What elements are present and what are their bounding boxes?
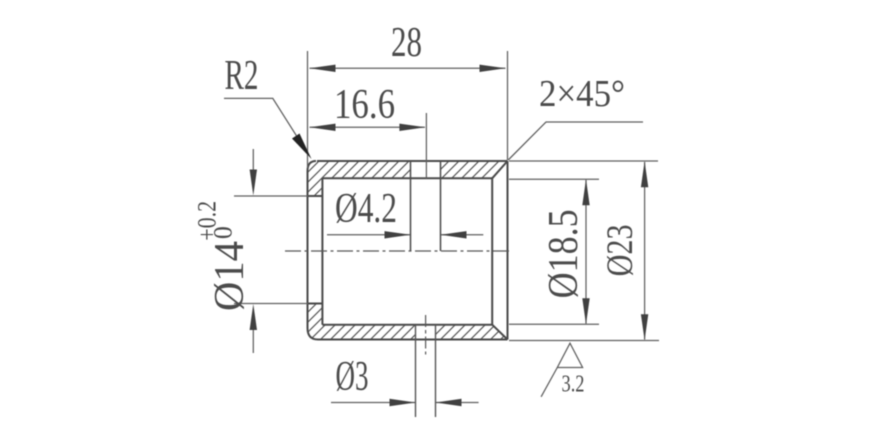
dim Ø23 dimension line xyxy=(644,162,646,340)
svg-text:Ø23: Ø23 xyxy=(600,224,641,276)
top radial hole Ø4.2 left edge xyxy=(410,161,412,251)
dim Ø18.5 top extension line xyxy=(509,178,599,180)
dim 28 left extension line xyxy=(307,51,309,168)
bottom radial hole Ø3 right edge xyxy=(435,325,437,417)
dim Ø14 top dimension line + arrow xyxy=(252,149,254,173)
dim 28 right extension line xyxy=(507,51,509,160)
svg-text:R2: R2 xyxy=(225,53,259,99)
svg-text:3.2: 3.2 xyxy=(562,372,585,398)
dim Ø4.2 dimension line right segment xyxy=(441,234,483,236)
lip bore bottom edge Ø14 xyxy=(308,303,323,305)
dim 16.6 left arrow xyxy=(310,124,336,131)
part outline: outer bottom edge xyxy=(318,339,508,341)
dim Ø14 top extension line xyxy=(234,195,308,197)
dim 16.6 dimension line xyxy=(310,126,425,128)
R2 fillet bottom-left corner xyxy=(308,328,319,340)
dim Ø18.5 top arrow xyxy=(582,179,589,205)
dim Ø23 top extension line xyxy=(509,160,658,162)
svg-text:28: 28 xyxy=(391,20,422,66)
hatch top band right of hole xyxy=(441,161,508,178)
lip bore top edge Ø14 xyxy=(308,195,323,197)
bottom hole axis centerline xyxy=(425,315,427,355)
bottom radial hole Ø3 left edge xyxy=(415,325,417,417)
dim Ø3 left arrow xyxy=(390,399,416,406)
chamfer bottom-right 2x45 xyxy=(492,325,507,340)
lip step edge xyxy=(321,178,323,324)
hatch bottom band right of hole xyxy=(436,325,508,340)
chamfer start circle edge xyxy=(491,178,493,324)
dim Ø18.5 bottom arrow xyxy=(582,298,589,324)
dim Ø4.2 right arrow xyxy=(441,231,467,238)
svg-text:0: 0 xyxy=(209,226,238,239)
part outline: outer top edge xyxy=(317,160,508,162)
dim Ø3 dimension line right segment xyxy=(436,402,479,404)
bore top edge Ø18.5 xyxy=(322,177,492,179)
dim Ø3 right arrow xyxy=(436,399,462,406)
hatch bottom-left L wall region xyxy=(308,304,416,340)
horizontal centerline xyxy=(285,250,510,252)
dim 28 dimension line xyxy=(310,67,506,69)
top radial hole Ø4.2 right edge xyxy=(440,161,442,251)
dim Ø18.5 bottom extension line xyxy=(509,323,599,325)
dim Ø23 bottom extension line xyxy=(509,340,659,342)
dim 16.6 right arrow xyxy=(399,124,425,131)
dim 28 right arrow xyxy=(480,65,506,72)
label R2 leader xyxy=(224,98,308,154)
dim Ø14 bottom extension line xyxy=(234,303,308,305)
dim Ø4.2 dimension line left segment xyxy=(327,234,410,236)
surface finish symbol 3.2 xyxy=(541,343,583,397)
dim Ø23 bottom arrow xyxy=(641,314,648,340)
svg-text:2×45°: 2×45° xyxy=(539,73,625,115)
dim Ø23 top arrow xyxy=(641,161,648,187)
svg-text:Ø14: Ø14 xyxy=(207,241,253,311)
right end face xyxy=(507,161,509,340)
label R2 arrow xyxy=(292,134,312,160)
hatch top-left L wall region xyxy=(308,161,411,196)
svg-text:Ø3: Ø3 xyxy=(336,354,369,400)
svg-text:Ø18.5: Ø18.5 xyxy=(541,209,587,298)
label 2x45 leader xyxy=(508,122,643,160)
part outline: left end face xyxy=(307,171,309,328)
bore bottom edge Ø18.5 xyxy=(322,324,492,326)
dim Ø3 dimension line left segment xyxy=(331,402,415,404)
chamfer top-right 2x45 xyxy=(492,161,507,178)
dim Ø4.2 left arrow xyxy=(385,231,411,238)
R2 fillet top-left corner xyxy=(308,161,317,171)
dim 28 left arrow xyxy=(310,65,336,72)
svg-text:Ø4.2: Ø4.2 xyxy=(335,186,397,232)
dim Ø14 bottom dimension line + arrow xyxy=(252,329,254,353)
svg-text:16.6: 16.6 xyxy=(334,82,395,128)
dim 16.6 right extension line xyxy=(425,113,427,178)
dim Ø18.5 dimension line xyxy=(585,180,587,324)
